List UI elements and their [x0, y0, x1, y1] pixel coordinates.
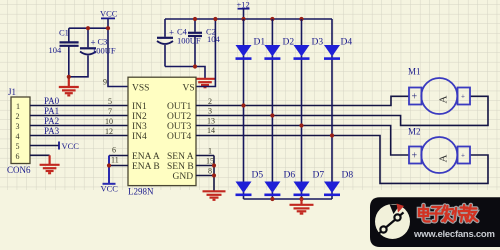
svg-text:9: 9: [103, 78, 107, 87]
svg-text:OUT1: OUT1: [167, 102, 192, 112]
ground (SEN/GND): [203, 191, 226, 200]
svg-text:VS: VS: [183, 84, 195, 94]
diode D5: [236, 171, 264, 197]
svg-text:PA1: PA1: [44, 106, 59, 116]
svg-text:OUT4: OUT4: [167, 132, 192, 142]
wire: C4 bottom: [164, 45, 166, 67]
wire: ENA A pin: [109, 155, 128, 157]
wire: SEN B pin: [196, 165, 214, 167]
svg-text:D7: D7: [313, 171, 325, 181]
wire: C2 top: [194, 19, 196, 32]
svg-text:C1: C1: [59, 28, 69, 38]
wire: C1 top: [68, 28, 70, 41]
wire: C4 top: [164, 19, 166, 37]
diode D6: [264, 171, 295, 197]
junction dots +12 bus: [193, 17, 197, 21]
svg-text:5: 5: [16, 142, 20, 151]
wire: bottom diode bus: [244, 198, 333, 200]
wire: diode column 2: [271, 19, 273, 199]
junction dot ENA B: [107, 163, 111, 167]
svg-text:5: 5: [108, 97, 112, 106]
svg-text:M2: M2: [408, 127, 421, 137]
svg-text:J1: J1: [8, 87, 16, 97]
diode D2: [264, 38, 294, 60]
svg-text:ENA B: ENA B: [132, 162, 160, 172]
svg-text:IN2: IN2: [132, 112, 147, 122]
wire: GND pin: [196, 175, 214, 177]
wire: C1-C3 bus: [69, 27, 108, 29]
svg-text:IN1: IN1: [132, 102, 147, 112]
ground (C4/C2): [195, 79, 215, 87]
capacitor C1: [49, 28, 79, 56]
connector J1: [7, 87, 31, 175]
svg-text:6: 6: [16, 152, 20, 161]
svg-text:OUT2: OUT2: [167, 112, 192, 122]
svg-text:1: 1: [16, 102, 20, 111]
wire: diode column 3: [301, 19, 303, 199]
svg-text:A: A: [438, 155, 450, 163]
wire: PA2 row: [30, 125, 128, 127]
svg-text:D6: D6: [284, 171, 296, 181]
wire: diode column 1: [243, 19, 245, 199]
svg-text:+: +: [461, 93, 465, 101]
diode D7: [294, 171, 325, 197]
svg-text:+: +: [169, 28, 174, 38]
logo disc: [375, 204, 410, 239]
junction dots C1C3 bus: [86, 26, 90, 30]
wire: ENA vertical to VCC port: [101, 156, 119, 194]
svg-text:3: 3: [208, 107, 212, 116]
wire: OUT3 to M2 left: [196, 126, 409, 156]
svg-text:VCC: VCC: [100, 9, 118, 19]
svg-text:A: A: [438, 96, 450, 104]
wire: OUT2 to M1 right: [196, 96, 488, 125]
svg-text:D8: D8: [342, 171, 354, 181]
svg-text:L298N: L298N: [128, 187, 154, 197]
elecfans watermark banner: [370, 197, 500, 247]
svg-text:PA0: PA0: [44, 96, 60, 106]
diode D4: [324, 38, 352, 60]
svg-text:IN3: IN3: [132, 122, 147, 132]
wire: VCC vertical to VSS: [108, 19, 128, 87]
svg-text:13: 13: [207, 117, 215, 126]
svg-text:D4: D4: [341, 38, 353, 48]
wire: SEN vertical: [213, 156, 215, 193]
wire: C2 bottom: [194, 37, 196, 67]
svg-text:104: 104: [49, 45, 63, 55]
svg-text:14: 14: [207, 126, 215, 135]
junction dots SEN: [212, 163, 216, 167]
svg-text:2: 2: [16, 112, 20, 121]
svg-text:PA3: PA3: [44, 126, 60, 136]
svg-text:OUT3: OUT3: [167, 122, 192, 132]
svg-text:3: 3: [16, 122, 20, 131]
wire: OUT1 to M1 left: [196, 96, 409, 105]
svg-text:D5: D5: [252, 171, 264, 181]
op IC U1 L298N body: [128, 77, 196, 196]
wire: diode column 4: [331, 19, 333, 199]
motor M1: [409, 78, 470, 114]
svg-text:D1: D1: [254, 38, 266, 48]
banner chinese text 电子发烧友: [419, 205, 477, 222]
wire: PA1 row: [30, 115, 128, 117]
wire: C3 top: [87, 28, 89, 47]
svg-text:ENA A: ENA A: [132, 152, 160, 162]
diode D1: [236, 38, 266, 60]
VCC power port top-left: [100, 9, 118, 19]
svg-text:12: 12: [105, 127, 113, 136]
wire: J1 pin6 to ground: [30, 154, 50, 156]
svg-text:10: 10: [105, 117, 113, 126]
wire: OUT4 to M2 right: [196, 136, 488, 184]
+12 power port: [237, 0, 250, 19]
svg-text:M1: M1: [408, 67, 421, 77]
svg-text:CON6: CON6: [7, 165, 31, 175]
svg-text:www.elecfans.com: www.elecfans.com: [413, 229, 495, 240]
wire: VS pin drop from +12 bus: [196, 19, 215, 87]
svg-text:104: 104: [207, 34, 221, 44]
wire: C4-C2 bottom bus to ground: [165, 67, 205, 79]
ground (C1/C3): [59, 77, 79, 96]
svg-text:PA2: PA2: [44, 116, 59, 126]
svg-text:2: 2: [208, 97, 212, 106]
svg-text:1: 1: [208, 147, 212, 156]
svg-text:D2: D2: [283, 38, 295, 48]
diode D3: [294, 38, 324, 60]
svg-text:VSS: VSS: [132, 84, 149, 94]
sheet grid: [0, 0, 500, 190]
svg-text:8: 8: [208, 167, 212, 176]
svg-text:VCC: VCC: [101, 184, 119, 194]
svg-text:+: +: [412, 92, 418, 103]
svg-text:100UF: 100UF: [92, 46, 116, 56]
junction dots output columns: [241, 103, 245, 107]
wire: SEN A pin: [196, 155, 214, 157]
wire: C3 bottom: [69, 56, 88, 77]
svg-text:IN4: IN4: [132, 132, 147, 142]
ground (bottom diodes): [290, 199, 314, 214]
svg-text:SEN A: SEN A: [167, 152, 194, 162]
svg-text:VCC: VCC: [62, 141, 80, 151]
svg-text:SEN B: SEN B: [167, 162, 194, 172]
svg-text:7: 7: [108, 107, 112, 116]
svg-text:11: 11: [111, 156, 119, 165]
wire: PA0 row: [30, 105, 128, 107]
ground (J1 pin6): [40, 155, 60, 173]
wire: ENA B pin: [109, 165, 128, 167]
wire: C1 bottom: [68, 47, 70, 77]
svg-text:4: 4: [16, 132, 20, 141]
svg-text:GND: GND: [173, 172, 194, 182]
capacitor C3: [80, 37, 116, 56]
diode D8: [324, 171, 353, 197]
wire: +12 bus: [165, 18, 332, 20]
svg-text:+: +: [412, 151, 418, 162]
wire: J1 pin5 to VCC port: [30, 141, 79, 151]
wire: PA3 row: [30, 135, 128, 137]
svg-text:+: +: [461, 152, 465, 160]
capacitor C4: [157, 27, 201, 46]
svg-text:6: 6: [112, 146, 116, 155]
svg-text:D3: D3: [312, 38, 324, 48]
capacitor C2: [188, 27, 221, 45]
motor M2: [409, 137, 470, 173]
